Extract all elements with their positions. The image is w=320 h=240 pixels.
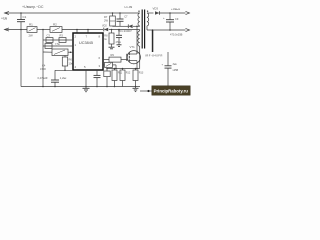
winding primary xyxy=(138,13,140,26)
ground xyxy=(135,87,137,89)
capacitor C10 xyxy=(165,65,172,67)
svg-text:VD3: VD3 xyxy=(153,7,159,11)
ground xyxy=(85,87,87,89)
svg-text:L1-09: L1-09 xyxy=(125,5,133,9)
arrow +U out xyxy=(186,11,190,14)
node secondary gnd bar xyxy=(152,29,154,31)
wire pin1 row xyxy=(43,45,73,47)
svg-text:R3: R3 xyxy=(60,33,64,37)
arrow input top xyxy=(5,11,10,14)
svg-text:R9: R9 xyxy=(111,53,115,57)
svg-text:R2: R2 xyxy=(53,23,57,27)
wire snubber node xyxy=(113,25,129,27)
wire output return xyxy=(147,29,186,31)
svg-text:+Uвых: +Uвых xyxy=(171,7,181,11)
resistor R6 timing xyxy=(64,56,66,58)
capacitor C3 xyxy=(46,38,53,43)
wire timing node xyxy=(55,69,73,71)
svg-text:R7: R7 xyxy=(104,15,108,19)
wire drain xyxy=(136,26,138,54)
wire source/sense node xyxy=(107,68,140,70)
node phasing dots xyxy=(138,11,139,12)
svg-text:UC3845: UC3845 xyxy=(79,41,93,45)
svg-text:C9: C9 xyxy=(175,17,179,21)
svg-text:R6: R6 xyxy=(69,58,73,62)
wire to pin2 row xyxy=(43,39,73,41)
svg-text:C3: C3 xyxy=(47,33,51,37)
wire pin5 to bus xyxy=(85,70,87,87)
wire xyxy=(62,29,103,31)
resistor R4 xyxy=(45,44,52,49)
svg-text:2W: 2W xyxy=(104,19,108,23)
svg-text:VT1: VT1 xyxy=(130,45,136,49)
wire +U rectified rail (top) xyxy=(5,12,140,14)
wire watermark gnd link xyxy=(140,90,152,92)
wire feedback column xyxy=(42,30,44,87)
svg-text:C4: C4 xyxy=(42,64,46,68)
svg-text:4700: 4700 xyxy=(40,67,46,71)
ground xyxy=(109,46,115,48)
svg-text:C1: C1 xyxy=(23,15,27,19)
node pin2 stub xyxy=(76,29,78,31)
capacitor C1 xyxy=(20,13,22,20)
node divider tap xyxy=(42,29,44,31)
svg-text:0,47мкФ: 0,47мкФ xyxy=(38,76,48,80)
capacitor C5 timing xyxy=(54,70,56,80)
resistor R2 xyxy=(50,27,62,33)
svg-text:R1: R1 xyxy=(29,23,33,27)
capacitor C11 xyxy=(96,70,98,75)
capacitor C8 filter xyxy=(118,29,120,31)
wire secondary ground drop xyxy=(152,30,154,52)
svg-text:+Uвыпр.~DC: +Uвыпр.~DC xyxy=(22,5,44,9)
svg-text:+Uв: +Uв xyxy=(1,17,7,21)
winding secondary xyxy=(147,13,149,26)
svg-text:+: + xyxy=(163,16,165,20)
svg-text:2W: 2W xyxy=(29,33,34,37)
node A junction xyxy=(20,12,22,14)
svg-text:IRF-840FR: IRF-840FR xyxy=(145,54,163,58)
resistor R3 xyxy=(59,38,66,43)
resistor R7 snubber xyxy=(112,12,114,14)
svg-text:R12: R12 xyxy=(126,72,131,75)
op-amp U1 UC3845 controller box xyxy=(73,33,103,70)
wire C1 to ground bus xyxy=(20,22,22,87)
resistor R11 sense xyxy=(114,68,116,70)
svg-text:1,2мк: 1,2мк xyxy=(60,76,67,80)
svg-text:R13: R13 xyxy=(139,72,144,75)
svg-text:VD1 1N4007: VD1 1N4007 xyxy=(118,30,132,33)
resistor R9 gate xyxy=(103,59,109,61)
core xyxy=(141,10,143,49)
winding aux xyxy=(138,31,140,46)
node pin7 stub xyxy=(87,29,89,31)
svg-text:х25В: х25В xyxy=(173,69,179,72)
arrow input lower xyxy=(5,28,10,31)
resistor R14 xyxy=(106,68,108,70)
svg-text:C7: C7 xyxy=(124,15,128,19)
svg-text:47мк: 47мк xyxy=(116,41,122,44)
wire aux supply xyxy=(109,29,140,31)
arrow out return xyxy=(186,28,190,31)
capacitor C7 snubber xyxy=(119,12,121,14)
ground bus xyxy=(21,86,140,88)
resistor R5 xyxy=(52,49,68,56)
node C1/Vcc rail junction xyxy=(20,29,22,31)
resistor R12 sense xyxy=(122,68,124,70)
wire xyxy=(37,29,50,31)
capacitor C9 output xyxy=(169,12,171,14)
wire feedback branch xyxy=(167,52,169,66)
resistor R8 filter xyxy=(111,29,113,31)
resistor R13 xyxy=(135,68,137,70)
diode VD1 clamp xyxy=(127,24,129,28)
watermark PrincipRaboty.ru xyxy=(152,86,190,95)
resistor R10 sense filter xyxy=(103,64,105,66)
svg-text:VD2: VD2 xyxy=(102,25,107,28)
svg-text:470,0х25В: 470,0х25В xyxy=(170,33,183,37)
wire Vcc startup rail xyxy=(5,29,28,31)
resistor R1 xyxy=(27,27,37,33)
svg-text:PrincipRaboty.ru: PrincipRaboty.ru xyxy=(154,89,189,94)
